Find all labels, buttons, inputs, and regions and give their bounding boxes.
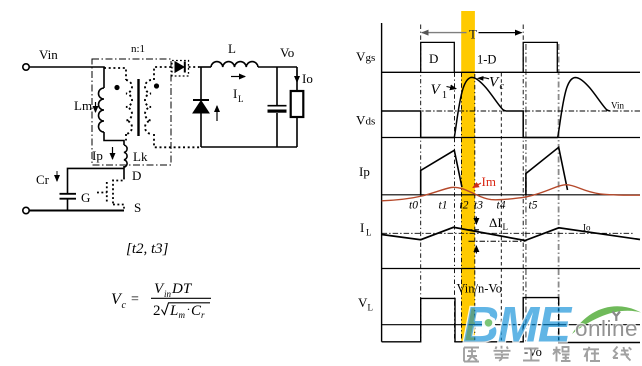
- diode D2 cathode bar: [184, 62, 186, 73]
- formula Vc = VinDT / (2*sqrt(Lm*Cr)): [111, 281, 211, 320]
- svg-text:1: 1: [442, 90, 447, 101]
- char cheng: [553, 347, 571, 362]
- svg-text:D: D: [132, 168, 141, 183]
- svg-text:t2: t2: [460, 200, 469, 212]
- char gong: [523, 349, 540, 361]
- arrow: Ip current down: [112, 147, 114, 159]
- diode D2 (series rectifier, solid triangle): [175, 62, 184, 72]
- char zai: [583, 347, 600, 362]
- svg-text:1-D: 1-D: [477, 53, 496, 67]
- svg-text:V: V: [489, 75, 500, 91]
- logo wrench on letter i: [613, 312, 621, 322]
- node t0 gridline: [420, 25, 422, 342]
- svg-text:D: D: [429, 51, 438, 66]
- svg-text:T: T: [469, 27, 477, 42]
- transformer boundary box (dash-dot): [92, 59, 171, 165]
- svg-text:m: m: [179, 310, 186, 320]
- Ip baseline: [382, 194, 640, 196]
- svg-text:I: I: [360, 220, 364, 235]
- svg-text:in: in: [164, 289, 172, 299]
- svg-text:=: =: [131, 292, 139, 307]
- capacitor C bottom plate: [268, 110, 287, 113]
- wire (dotted): primary bottom lead: [125, 134, 127, 141]
- arrow: Io current down: [296, 70, 298, 82]
- char xian: [613, 347, 631, 361]
- svg-text:t5: t5: [529, 200, 538, 212]
- inductor Lm: [99, 88, 104, 132]
- svg-text:Io: Io: [302, 71, 313, 86]
- logo hexagon nut: [482, 315, 495, 331]
- svg-text:c: c: [122, 300, 127, 311]
- svg-text:gs: gs: [366, 52, 376, 64]
- svg-text:r: r: [201, 310, 205, 320]
- svg-text:V: V: [356, 113, 366, 128]
- diode D3 triangle (pointing up): [193, 101, 209, 113]
- svg-text:L: L: [503, 222, 509, 232]
- node t2 gridline: [461, 72, 463, 341]
- svg-text:c: c: [500, 81, 505, 92]
- svg-text:DT: DT: [171, 281, 193, 297]
- wire: load branch: [296, 67, 298, 147]
- IL valley level marker (dash-dot): [469, 240, 526, 242]
- svg-text:L: L: [366, 228, 372, 238]
- inductor Lk: [124, 145, 127, 167]
- Vds baseline: [382, 137, 640, 139]
- transistor Q1 source lead: [113, 205, 124, 211]
- diode D3 (freewheeling) cathode bar: [193, 99, 209, 101]
- wire: drain node to Cr top: [68, 168, 125, 193]
- waveform VL: [382, 298, 640, 343]
- svg-text:t4: t4: [497, 200, 506, 212]
- svg-text:L: L: [238, 94, 244, 104]
- wire: output loop top: [200, 66, 211, 68]
- wire: capacitor branch: [276, 67, 278, 147]
- svg-text:2: 2: [153, 303, 161, 319]
- svg-text:Vin/n-Vo: Vin/n-Vo: [457, 282, 503, 296]
- resistor load (rectangle): [291, 91, 304, 117]
- char xue: [494, 346, 511, 361]
- T dimension arrow: [422, 32, 467, 34]
- svg-text:t3: t3: [474, 200, 483, 212]
- transistor Q1 gate bar: [106, 182, 108, 203]
- transistor Q1 gate lead: [97, 192, 107, 194]
- svg-text:Vin: Vin: [611, 101, 624, 111]
- IL section baseline: [382, 268, 640, 270]
- svg-text:V: V: [356, 49, 366, 64]
- inductor L (output filter): [211, 62, 258, 67]
- capacitor Cr plates: [60, 193, 77, 195]
- arrow: Lm current down: [95, 102, 97, 112]
- period end gridline: [522, 25, 524, 342]
- wire: Vin terminal to Lm top corner: [30, 67, 105, 88]
- terminal Vin (input, top-left): [23, 64, 29, 70]
- transistor Q1 channel bar: [112, 180, 114, 206]
- Vgs baseline: [382, 71, 640, 73]
- svg-text:L: L: [368, 303, 374, 313]
- waveform Vgs: [382, 42, 640, 72]
- arrow delta-IL upper: [475, 217, 477, 225]
- second switch-off gridline (gray bold): [558, 44, 560, 342]
- node t3 gridline: [474, 74, 476, 342]
- arrow delta-IL lower: [475, 246, 477, 254]
- svg-text:online: online: [575, 316, 638, 341]
- highlight bar (yellow) for interval t2-t3: [461, 11, 475, 342]
- svg-text:L: L: [228, 41, 236, 56]
- Io level line (dash-dot): [382, 232, 634, 234]
- svg-text:G: G: [81, 190, 90, 205]
- waveform Vds second hump: [558, 78, 611, 138]
- wire: Lm bottom to Lk top: [104, 132, 124, 145]
- wire (dotted): secondary bottom lead: [154, 134, 200, 147]
- svg-text:S: S: [134, 200, 141, 215]
- waveform Vds: [382, 77, 558, 137]
- wire: Cr bottom to rail: [67, 200, 69, 211]
- svg-text:BME: BME: [463, 297, 573, 353]
- terminal (bottom-left return): [23, 207, 29, 213]
- wire: Lk bottom to drain node: [123, 166, 125, 178]
- svg-text:ds: ds: [366, 116, 376, 128]
- svg-text:Lk: Lk: [133, 149, 148, 164]
- svg-text:Im: Im: [482, 174, 496, 189]
- waveform Ip first cycle: [421, 150, 462, 195]
- arrow: Cr voltage down: [56, 171, 58, 181]
- svg-text:Ip: Ip: [359, 164, 370, 179]
- svg-text:[t2, t3]: [t2, t3]: [126, 241, 169, 257]
- svg-text:V: V: [431, 82, 442, 98]
- curve Im (magnetizing current, red-brown): [382, 185, 640, 201]
- svg-text:t1: t1: [439, 200, 448, 212]
- arrow: freewheel current up: [216, 106, 218, 121]
- VL zero line: [382, 324, 640, 326]
- waveform IL (triangle ripple): [382, 227, 640, 240]
- polarity dot secondary: [154, 83, 159, 88]
- IL peak level marker (dashed): [469, 229, 482, 231]
- transistor Q1 MOSFET (dotted symbol) drain lead: [113, 178, 124, 181]
- wire: output loop bottom: [201, 146, 297, 148]
- transformer core bar: [137, 79, 139, 136]
- svg-text:L: L: [169, 303, 178, 319]
- svg-text:V: V: [358, 295, 368, 310]
- transformer secondary winding (dotted): [145, 80, 151, 134]
- dotted box around diode D2: [172, 61, 189, 77]
- logo green swoosh: [572, 306, 641, 334]
- Vin level line (dash-dot): [382, 110, 640, 112]
- svg-text:Vo: Vo: [280, 45, 294, 60]
- svg-text:Vin: Vin: [39, 47, 58, 62]
- wire (dotted): diode D2 to output loop: [189, 66, 202, 68]
- wire: bottom rail: [30, 210, 125, 212]
- capacitor C (output) top plate: [268, 105, 287, 107]
- waveform Ip second cycle: [526, 147, 568, 195]
- svg-text:n:1: n:1: [131, 43, 145, 55]
- logo green dot: [485, 319, 493, 327]
- axis (vertical): [381, 23, 383, 342]
- wire (dotted): secondary top lead to diode: [154, 67, 174, 80]
- svg-text:t0: t0: [409, 200, 418, 212]
- svg-text:I: I: [233, 86, 237, 101]
- svg-text:Cr: Cr: [36, 172, 50, 187]
- char yi: [464, 348, 479, 362]
- svg-text:·: ·: [187, 302, 191, 316]
- node t1 gridline: [454, 72, 456, 341]
- wire: freewheel branch: [200, 67, 202, 147]
- node t5 gridline (gray bold): [525, 44, 527, 342]
- svg-text:ΔI: ΔI: [489, 215, 502, 230]
- svg-text:Lm: Lm: [74, 98, 92, 113]
- wire: L to Vo node: [258, 66, 297, 68]
- logo chinese caption (drawn strokes): [464, 346, 631, 362]
- arrow: IL current right: [231, 76, 245, 78]
- transformer primary winding (dotted): [126, 80, 132, 134]
- polarity dot primary: [114, 85, 119, 90]
- wire (dotted): primary top lead: [104, 68, 126, 80]
- svg-text:Ip: Ip: [92, 148, 103, 163]
- node t4 gridline: [500, 73, 502, 342]
